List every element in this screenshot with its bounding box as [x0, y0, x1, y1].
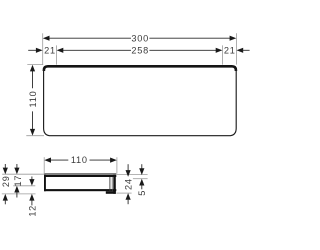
- bracket inner line 2: [109, 177, 111, 191]
- dimension 110 bottom arrow: [30, 129, 35, 136]
- dimension 12 lower arrow: [29, 194, 34, 201]
- dimension 21 left arrow: [36, 48, 43, 53]
- dimension 258 line: [62, 49, 131, 51]
- svg-text:110: 110: [71, 155, 88, 165]
- extension line 24 bottom ref: [116, 192, 131, 194]
- dimension 110 side left arrow: [44, 158, 51, 163]
- extension line top-left horizontal (for 110 vertical): [27, 64, 43, 66]
- svg-text:5: 5: [137, 190, 147, 196]
- extension line right edge (for 300): [235, 33, 237, 64]
- svg-text:21: 21: [44, 45, 56, 55]
- dimension 258 left arrow: [57, 48, 64, 53]
- extension line left edge (for 300): [42, 33, 44, 64]
- dimension 110 vertical line (top view): [32, 70, 34, 88]
- dimension 29 lower leader: [4, 199, 6, 204]
- dimension 24 upper leader: [127, 164, 129, 171]
- svg-text:21: 21: [224, 45, 236, 55]
- shelf bar bottom edge: [44, 189, 116, 191]
- dimension 21 right leader: [242, 49, 249, 51]
- dimension 29 upper arrow: [3, 168, 8, 175]
- bracket inner line 3: [111, 177, 113, 191]
- dimension 110 top arrow: [30, 65, 35, 72]
- extension line 17 bottom ref: [13, 185, 35, 187]
- dimension 17 lower leader: [16, 191, 18, 197]
- wall bracket right edge: [113, 175, 116, 194]
- extension line 29/12 bottom ref: [2, 193, 36, 195]
- svg-text:110: 110: [28, 91, 38, 108]
- shelf bar top thick surface: [44, 175, 116, 177]
- dimension 5 upper leader: [141, 164, 143, 170]
- shelf outline sides and bottom: [44, 70, 237, 136]
- dimension 300 right arrow: [230, 36, 237, 41]
- extension line side 110 left: [43, 157, 45, 174]
- dimension 24 lower leader: [127, 199, 129, 204]
- dimension 110 side right arrow: [110, 158, 117, 163]
- extension line side 110 right: [116, 157, 118, 173]
- extension line left inner (for 258): [56, 45, 58, 64]
- dimension 300 line: [48, 37, 131, 39]
- dimension 258 right arrow: [216, 48, 223, 53]
- extension line right top ref (24/5): [116, 174, 147, 176]
- svg-text:12: 12: [27, 205, 37, 217]
- dimension 21 right arrow: [237, 48, 244, 53]
- svg-text:24: 24: [124, 178, 134, 190]
- svg-text:300: 300: [131, 33, 149, 43]
- extension line bottom-left horizontal (for 110 vertical): [26, 135, 44, 137]
- dimension 12 upper leader: [31, 177, 33, 181]
- dimension 110 side line: [50, 159, 69, 161]
- dimension 24 upper arrow: [126, 170, 131, 177]
- dimension 17 lower arrow: [14, 186, 19, 193]
- dimension 5 lower leader: [141, 184, 143, 189]
- svg-text:17: 17: [13, 175, 23, 187]
- dimension 300 left arrow: [43, 36, 50, 41]
- dimension 12 upper arrow: [29, 179, 34, 186]
- extension line 5 bottom ref: [133, 178, 148, 180]
- dimension 5 upper arrow: [139, 168, 144, 175]
- dimension 17 upper arrow: [14, 168, 19, 175]
- dimension 29 lower arrow: [3, 194, 8, 201]
- extension line right inner (for 258): [222, 45, 224, 64]
- dimension 24 lower arrow: [126, 193, 131, 200]
- shelf outline top thick edge: [44, 66, 236, 71]
- wall bracket foot: [106, 191, 116, 194]
- dimension 21 left leader: [28, 49, 37, 51]
- shelf bar top thin edge: [44, 173, 116, 175]
- extension line side top-left (29/17 top ref): [2, 173, 44, 175]
- svg-text:258: 258: [131, 45, 149, 55]
- svg-text:29: 29: [1, 175, 11, 187]
- dimension 5 lower arrow: [139, 179, 144, 186]
- dimension 17 upper leader: [16, 164, 18, 169]
- dimension 29 upper leader: [4, 164, 6, 169]
- shelf bar left edge: [44, 175, 46, 192]
- dimension 12 lower leader: [31, 199, 33, 205]
